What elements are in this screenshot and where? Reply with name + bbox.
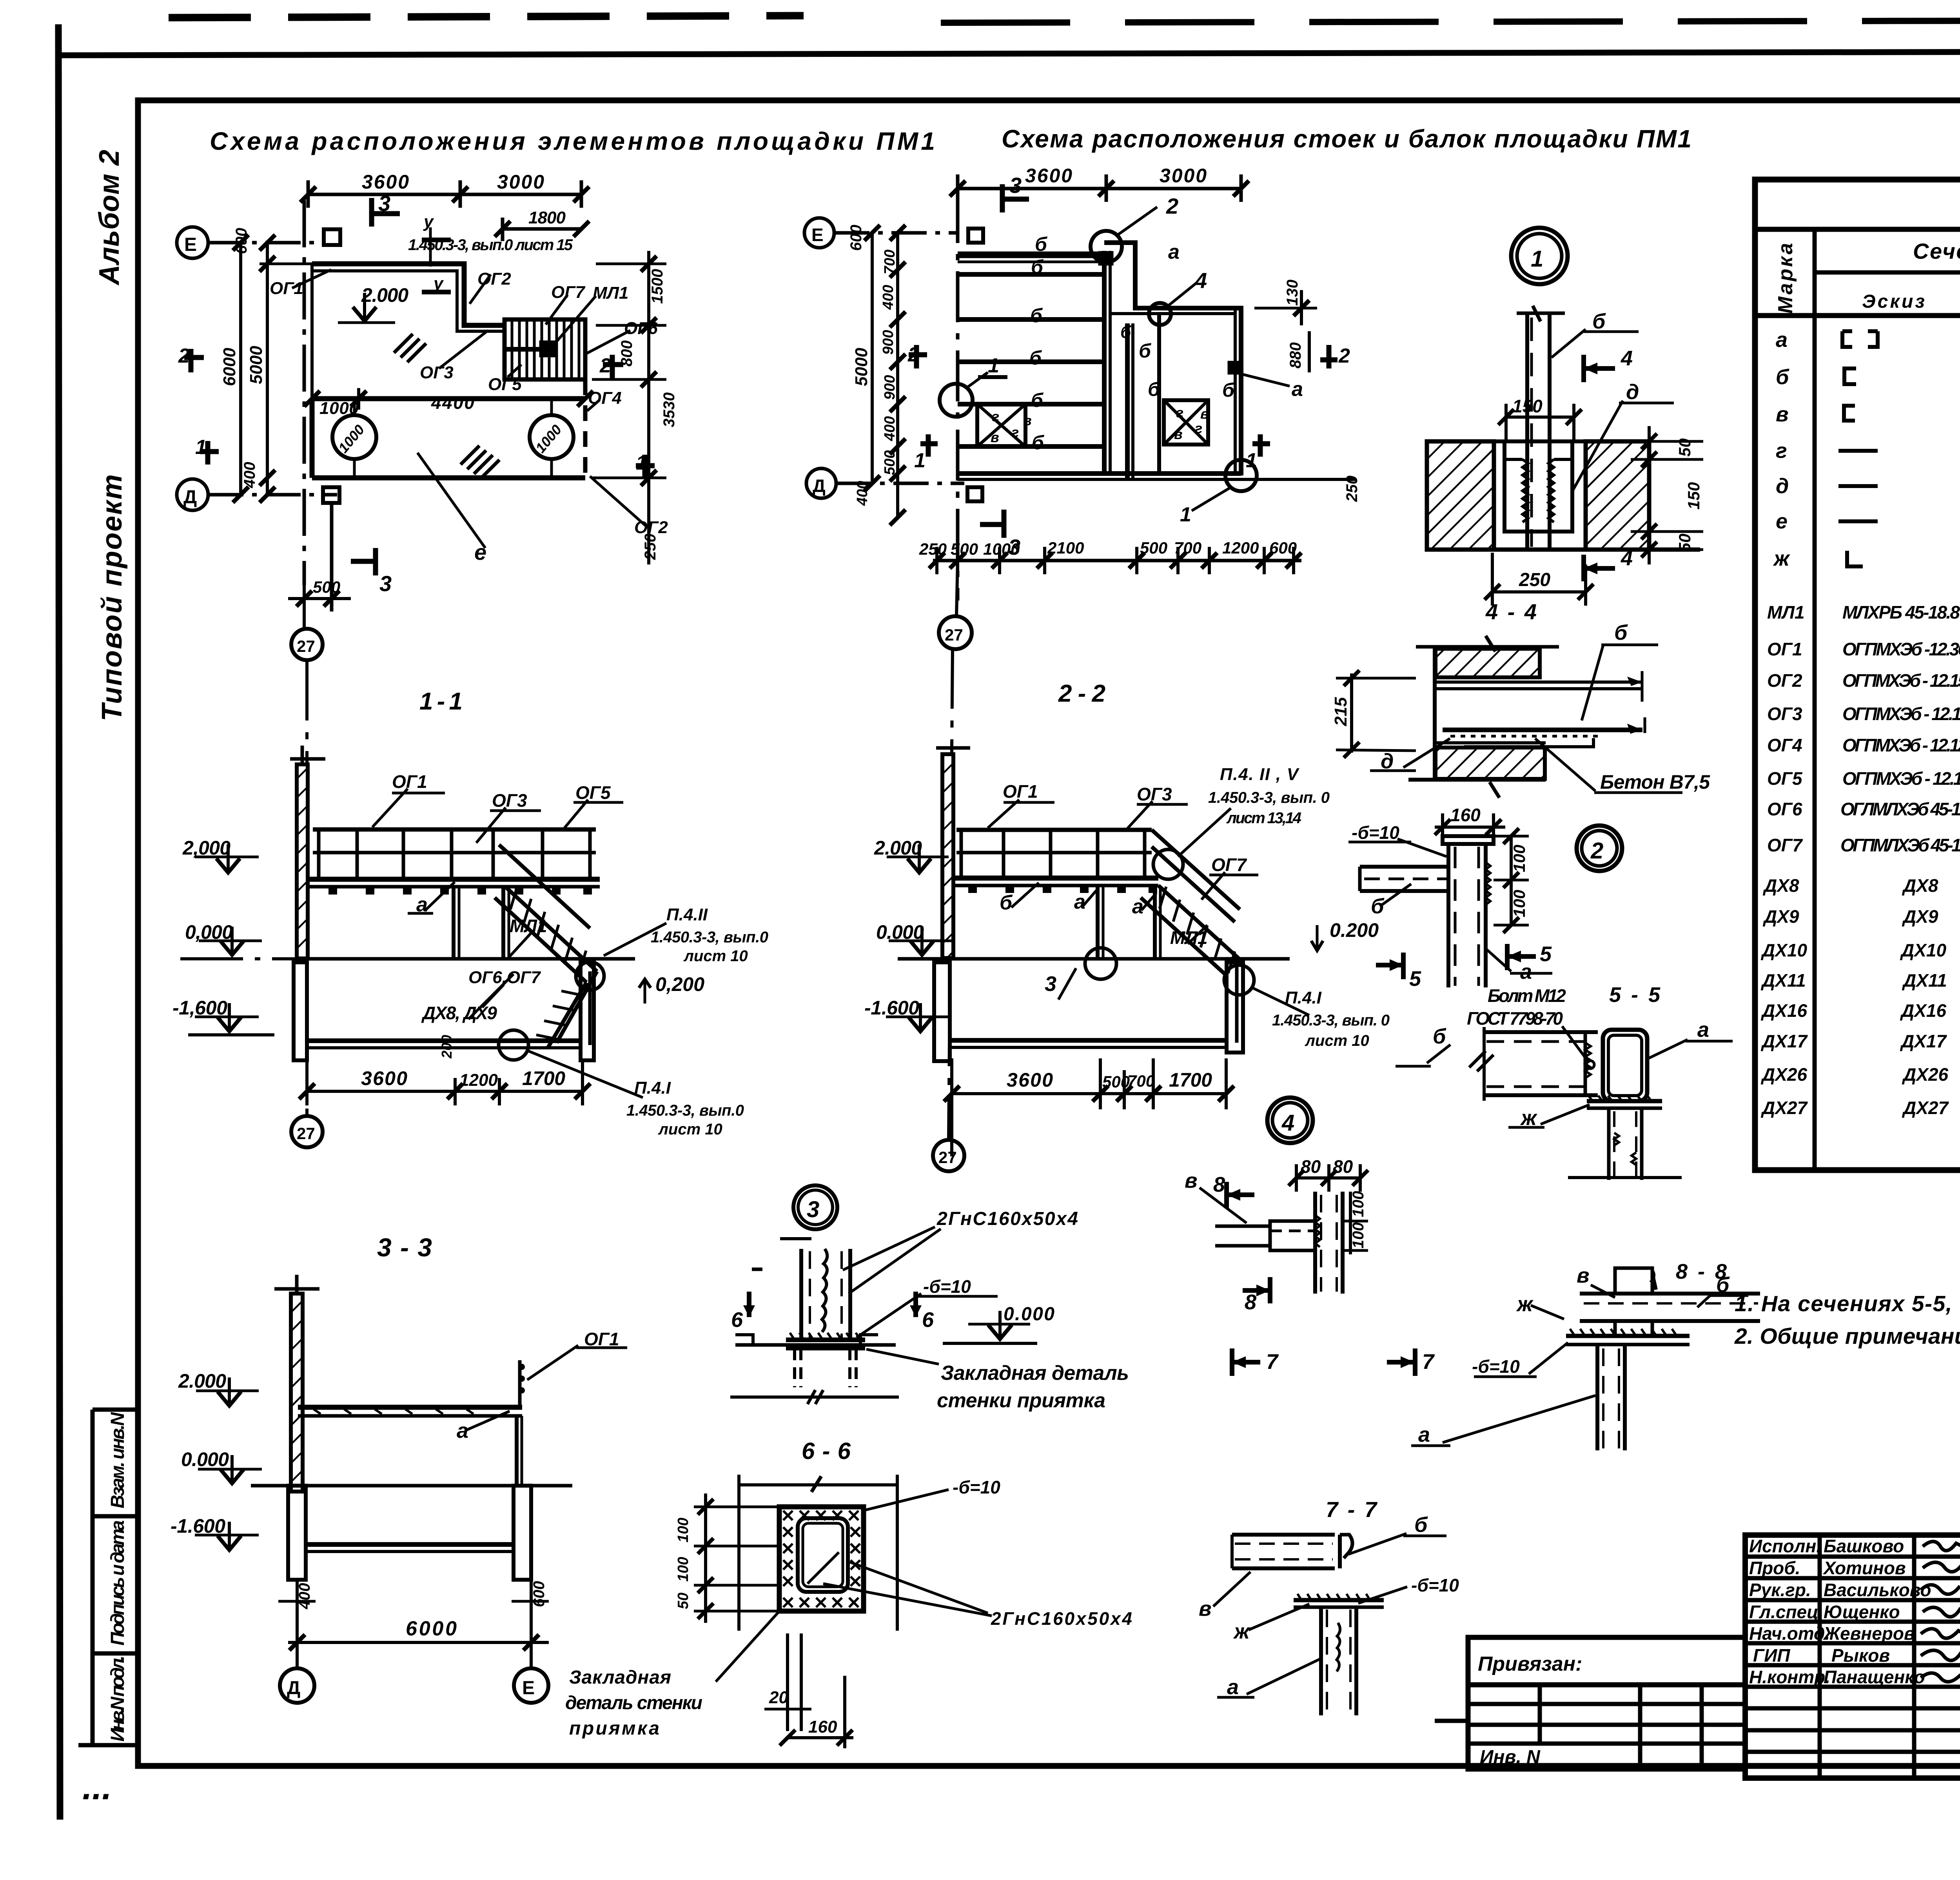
svg-text:д: д <box>1776 474 1789 498</box>
svg-text:Васильково: Васильково <box>1824 1580 1931 1600</box>
svg-text:2.000: 2.000 <box>178 1370 226 1392</box>
svg-text:0.000: 0.000 <box>876 921 924 943</box>
svg-text:0,000: 0,000 <box>185 921 233 943</box>
svg-text:100: 100 <box>675 1557 691 1582</box>
svg-text:7: 7 <box>1422 1350 1435 1374</box>
svg-text:250: 250 <box>1343 475 1361 502</box>
svg-text:ДХ8, ДХ9: ДХ8, ДХ9 <box>421 1003 497 1023</box>
svg-text:Бетон В7,5: Бетон В7,5 <box>1600 771 1710 793</box>
svg-text:ОГПМЛХЭб 45-12.18: ОГПМЛХЭб 45-12.18 <box>1840 835 1960 855</box>
svg-text:ОГ1: ОГ1 <box>270 279 303 298</box>
svg-text:ж: ж <box>1520 1106 1538 1130</box>
svg-text:50: 50 <box>1675 438 1694 457</box>
svg-text:ОГ7: ОГ7 <box>1211 855 1247 875</box>
svg-text:Нач.отд.: Нач.отд. <box>1749 1623 1830 1644</box>
svg-text:400: 400 <box>241 462 258 488</box>
svg-text:1200: 1200 <box>459 1071 498 1090</box>
svg-text:50: 50 <box>1675 534 1694 552</box>
svg-text:215: 215 <box>1331 697 1350 726</box>
svg-text:ОГ1: ОГ1 <box>392 771 427 792</box>
svg-text:6000: 6000 <box>406 1617 457 1640</box>
svg-text:Инв.N подл.: Инв.N подл. <box>107 1655 128 1742</box>
svg-text:е: е <box>1776 510 1788 533</box>
svg-text:3: 3 <box>1009 173 1022 198</box>
svg-text:ГОСТ 7798-70: ГОСТ 7798-70 <box>1467 1008 1563 1029</box>
svg-text:3000: 3000 <box>1160 165 1207 187</box>
svg-text:2,000: 2,000 <box>182 837 230 859</box>
svg-text:ОГ1: ОГ1 <box>1767 639 1802 659</box>
svg-text:в: в <box>991 429 999 445</box>
svg-text:Взам. инв.N: Взам. инв.N <box>107 1412 128 1508</box>
svg-text:-б=10: -б=10 <box>1352 822 1399 843</box>
svg-text:100: 100 <box>675 1518 691 1542</box>
svg-text:ж: ж <box>1516 1292 1534 1316</box>
svg-text:250: 250 <box>642 534 659 560</box>
svg-text:Жевнеров: Жевнеров <box>1823 1623 1915 1644</box>
svg-text:ж: ж <box>1233 1620 1251 1643</box>
svg-text:8: 8 <box>1245 1290 1256 1314</box>
svg-text:в: в <box>1185 1169 1198 1192</box>
svg-text:0.000: 0.000 <box>1004 1304 1054 1325</box>
svg-text:3600: 3600 <box>1025 165 1072 187</box>
svg-text:ОГ1: ОГ1 <box>584 1329 619 1349</box>
svg-text:Закладная деталь: Закладная деталь <box>941 1362 1129 1385</box>
svg-text:б: б <box>1031 389 1044 411</box>
svg-text:1500: 1500 <box>649 269 666 304</box>
svg-text:Эскиз: Эскиз <box>1862 291 1925 312</box>
svg-text:3: 3 <box>378 191 390 216</box>
svg-text:-б=10: -б=10 <box>1411 1575 1459 1595</box>
svg-text:1: 1 <box>988 354 999 377</box>
svg-text:Привязан:: Привязан: <box>1478 1653 1582 1675</box>
svg-text:8: 8 <box>1213 1173 1225 1196</box>
svg-text:ДХ10: ДХ10 <box>1900 940 1946 960</box>
svg-text:б: б <box>1148 378 1161 400</box>
svg-text:600: 600 <box>530 1581 548 1607</box>
svg-text:-б=10: -б=10 <box>923 1276 971 1297</box>
svg-text:Д: Д <box>813 475 826 496</box>
svg-text:б: б <box>1032 432 1045 454</box>
svg-text:в: в <box>1174 426 1183 442</box>
svg-text:П.4.I: П.4.I <box>634 1078 671 1098</box>
svg-text:б: б <box>1592 310 1606 333</box>
svg-text:б: б <box>1120 323 1132 342</box>
svg-text:3-3: 3-3 <box>377 1233 432 1262</box>
svg-text:ОГ3: ОГ3 <box>1767 704 1802 724</box>
svg-text:5000: 5000 <box>247 346 266 384</box>
svg-text:1.450.3-3, вып. 0: 1.450.3-3, вып. 0 <box>1272 1012 1390 1029</box>
svg-text:1: 1 <box>1246 449 1257 472</box>
svg-text:ОГПМХЭб - 12.18: ОГПМХЭб - 12.18 <box>1842 768 1960 789</box>
svg-text:600: 600 <box>1269 539 1297 557</box>
svg-text:Проб.: Проб. <box>1749 1558 1800 1578</box>
svg-text:а: а <box>1776 328 1788 352</box>
svg-text:МЛ1: МЛ1 <box>593 283 628 303</box>
svg-text:2.000: 2.000 <box>361 284 408 306</box>
svg-text:500: 500 <box>313 578 340 596</box>
svg-text:Исполн.: Исполн. <box>1749 1536 1821 1556</box>
svg-text:700: 700 <box>1174 539 1201 557</box>
svg-text:1800: 1800 <box>528 208 566 227</box>
svg-text:ОГ3: ОГ3 <box>1137 784 1172 804</box>
svg-text:г: г <box>1011 424 1019 440</box>
svg-text:ОГ4: ОГ4 <box>1767 735 1802 755</box>
svg-text:1000: 1000 <box>319 399 359 418</box>
svg-text:Типовой проект: Типовой проект <box>96 474 128 721</box>
svg-text:Альбом 2: Альбом 2 <box>94 150 125 286</box>
svg-text:500: 500 <box>951 540 978 558</box>
svg-text:ОГ2: ОГ2 <box>1767 670 1802 691</box>
svg-text:1: 1 <box>195 436 207 459</box>
svg-text:П.4.II: П.4.II <box>666 905 708 924</box>
svg-text:1000: 1000 <box>335 421 368 456</box>
svg-text:Рыков: Рыков <box>1831 1645 1890 1666</box>
svg-text:1 - 1: 1 - 1 <box>419 688 463 715</box>
svg-text:ДХ9: ДХ9 <box>1762 906 1799 927</box>
svg-text:г: г <box>992 408 999 425</box>
svg-text:у: у <box>423 212 434 231</box>
svg-text:2. Общие примечания ст. на лис: 2. Общие примечания ст. на листе 14. <box>1734 1324 1960 1349</box>
svg-text:2: 2 <box>1166 194 1178 218</box>
svg-text:20: 20 <box>769 1688 788 1707</box>
svg-text:250: 250 <box>919 540 947 558</box>
svg-text:Е: Е <box>811 225 824 245</box>
svg-text:1.450.3-3, вып.0: 1.450.3-3, вып.0 <box>626 1102 744 1119</box>
svg-text:1.450.3-3, вып. 0: 1.450.3-3, вып. 0 <box>1208 789 1330 806</box>
svg-text:250: 250 <box>1519 570 1550 590</box>
svg-text:ДХ8: ДХ8 <box>1762 875 1799 896</box>
svg-text:700: 700 <box>1127 1072 1155 1090</box>
svg-text:3600: 3600 <box>361 1067 407 1089</box>
svg-text:Хотинов: Хотинов <box>1822 1558 1906 1578</box>
svg-text:а: а <box>1168 241 1180 263</box>
svg-text:Подпись и дата: Подпись и дата <box>107 1520 128 1646</box>
svg-text:ОГ5: ОГ5 <box>488 375 522 394</box>
svg-text:ГИП: ГИП <box>1753 1645 1790 1666</box>
svg-text:МЛ1: МЛ1 <box>1170 927 1208 948</box>
svg-text:2: 2 <box>1338 345 1350 367</box>
svg-text:500: 500 <box>1140 539 1167 557</box>
svg-text:2: 2 <box>907 343 919 366</box>
svg-text:П.4. II , V: П.4. II , V <box>1220 765 1300 784</box>
svg-text:ОГ5: ОГ5 <box>1767 768 1803 789</box>
svg-text:е: е <box>474 540 486 564</box>
svg-text:ОГПМХЭб - 12.15: ОГПМХЭб - 12.15 <box>1842 670 1960 691</box>
svg-text:3: 3 <box>379 571 392 596</box>
svg-text:6000: 6000 <box>220 348 239 386</box>
svg-text:ОГ5: ОГ5 <box>575 782 611 803</box>
svg-text:лист 10: лист 10 <box>658 1121 722 1138</box>
svg-text:0.000: 0.000 <box>181 1448 229 1470</box>
svg-text:ДХ8: ДХ8 <box>1902 875 1938 896</box>
svg-text:27: 27 <box>297 1124 315 1143</box>
svg-text:ОГ7: ОГ7 <box>551 283 586 302</box>
svg-text:0,200: 0,200 <box>655 973 704 995</box>
svg-text:ДХ26: ДХ26 <box>1902 1064 1948 1085</box>
svg-text:ОГ3: ОГ3 <box>420 363 454 382</box>
svg-text:400: 400 <box>296 1583 313 1610</box>
svg-text:ДХ9: ДХ9 <box>1902 906 1938 927</box>
svg-text:1.450.3-3, вып.0 лист 15: 1.450.3-3, вып.0 лист 15 <box>408 236 573 254</box>
svg-text:ДХ10: ДХ10 <box>1760 940 1807 960</box>
svg-text:а: а <box>1227 1675 1239 1699</box>
svg-text:а: а <box>416 893 428 916</box>
svg-text:900: 900 <box>880 330 897 355</box>
svg-text:ДХ17: ДХ17 <box>1760 1031 1808 1051</box>
svg-text:3600: 3600 <box>362 171 409 193</box>
svg-text:МЛ1: МЛ1 <box>1767 602 1805 622</box>
svg-text:27: 27 <box>297 637 315 655</box>
svg-text:б: б <box>1030 305 1043 327</box>
svg-text:ОГ2: ОГ2 <box>477 269 511 289</box>
svg-text:80: 80 <box>1333 1156 1353 1177</box>
svg-text:а: а <box>1418 1423 1430 1446</box>
svg-text:д: д <box>1626 380 1639 404</box>
svg-text:Гл.спец.: Гл.спец. <box>1749 1602 1824 1622</box>
svg-text:ДХ27: ДХ27 <box>1760 1098 1808 1118</box>
svg-text:1.450.3-3, вып.0: 1.450.3-3, вып.0 <box>651 929 768 946</box>
svg-text:0.200: 0.200 <box>1330 919 1379 941</box>
svg-text:ОГ4: ОГ4 <box>588 388 622 408</box>
svg-text:27: 27 <box>945 626 963 644</box>
svg-text:600: 600 <box>233 228 250 254</box>
svg-text:500: 500 <box>1102 1072 1130 1091</box>
svg-text:4400: 4400 <box>431 392 474 413</box>
svg-text:ОГ1: ОГ1 <box>1003 781 1038 802</box>
svg-text:Д: Д <box>287 1678 300 1699</box>
svg-text:ОГПМХЭб - 12.12: ОГПМХЭб - 12.12 <box>1842 735 1960 755</box>
svg-text:а: а <box>457 1419 468 1443</box>
svg-text:а: а <box>1697 1018 1709 1042</box>
svg-text:50: 50 <box>675 1593 691 1609</box>
svg-text:г: г <box>1195 420 1202 436</box>
svg-text:-б=10: -б=10 <box>1472 1356 1520 1377</box>
svg-text:880: 880 <box>1287 342 1304 368</box>
svg-text:2.000: 2.000 <box>874 837 922 859</box>
svg-text:ДХ11: ДХ11 <box>1902 970 1947 991</box>
svg-text:80: 80 <box>1301 1156 1321 1177</box>
svg-text:100: 100 <box>1510 845 1528 872</box>
svg-text:5000: 5000 <box>852 348 871 386</box>
svg-text:ОГПМХЭб -12.36: ОГПМХЭб -12.36 <box>1842 639 1960 659</box>
svg-text:ОГ6,ОГ7: ОГ6,ОГ7 <box>468 968 541 987</box>
svg-text:4: 4 <box>1621 347 1633 370</box>
svg-text:ОГПМХЭб - 12.12*: ОГПМХЭб - 12.12* <box>1842 704 1960 724</box>
svg-text:4-4: 4-4 <box>1485 599 1537 624</box>
svg-text:лист 13,14: лист 13,14 <box>1226 809 1301 827</box>
svg-text:МЛХРБ 45-18.8: МЛХРБ 45-18.8 <box>1842 602 1960 622</box>
svg-text:500: 500 <box>882 450 898 475</box>
svg-text:6: 6 <box>922 1308 934 1332</box>
svg-text:МЛ1: МЛ1 <box>510 916 547 936</box>
svg-text:б: б <box>1433 1025 1446 1048</box>
svg-text:4: 4 <box>1621 546 1633 570</box>
svg-text:а: а <box>1292 378 1303 401</box>
svg-text:ДХ17: ДХ17 <box>1900 1031 1947 1051</box>
svg-text:ДХ16: ДХ16 <box>1760 1000 1807 1021</box>
svg-text:лист 10: лист 10 <box>1305 1032 1369 1049</box>
svg-text:б: б <box>1371 895 1385 918</box>
svg-text:б: б <box>1614 621 1628 644</box>
svg-text:д: д <box>1381 749 1394 773</box>
svg-text:Е: Е <box>522 1678 535 1699</box>
svg-text:ДХ26: ДХ26 <box>1760 1064 1807 1085</box>
svg-text:160: 160 <box>1450 805 1481 825</box>
svg-text:3: 3 <box>1045 972 1056 996</box>
svg-text:Схема расположения элементов п: Схема расположения элементов площадки ПМ… <box>210 127 935 155</box>
svg-text:ОГ7: ОГ7 <box>1767 835 1803 855</box>
svg-text:1: 1 <box>914 449 926 472</box>
svg-text:6: 6 <box>731 1308 743 1332</box>
svg-text:1. На сечениях 5-5, 7-7, 8-8 и: 1. На сечениях 5-5, 7-7, 8-8 и в узлах н… <box>1735 1291 1960 1316</box>
svg-text:1700: 1700 <box>1169 1069 1212 1091</box>
svg-text:у: у <box>433 274 444 293</box>
svg-text:б: б <box>1139 340 1152 362</box>
svg-text:ОГ6: ОГ6 <box>1767 799 1802 819</box>
svg-text:6-6: 6-6 <box>802 1438 851 1464</box>
svg-text:ДХ16: ДХ16 <box>1900 1000 1946 1021</box>
svg-text:150: 150 <box>1512 396 1543 416</box>
svg-text:ж: ж <box>1773 547 1791 570</box>
svg-text:Закладная: Закладная <box>569 1667 671 1688</box>
svg-text:100: 100 <box>1350 1191 1367 1217</box>
svg-text:Схема расположения стоек и бал: Схема расположения стоек и балок площадк… <box>1002 125 1691 153</box>
svg-text:900: 900 <box>882 375 898 400</box>
svg-text:б: б <box>1035 233 1048 255</box>
svg-text:Марка: Марка <box>1774 243 1797 314</box>
svg-text:4: 4 <box>1194 268 1207 293</box>
svg-text:1000: 1000 <box>983 540 1020 558</box>
svg-text:приямка: приямка <box>569 1718 659 1739</box>
svg-text:Болт М12: Болт М12 <box>1488 985 1566 1006</box>
svg-text:деталь стенки: деталь стенки <box>565 1693 702 1713</box>
svg-text:Башково: Башково <box>1824 1536 1904 1556</box>
svg-text:100: 100 <box>1510 890 1528 917</box>
svg-text:2100: 2100 <box>1047 539 1084 557</box>
svg-text:а: а <box>1074 891 1085 913</box>
svg-text:...: ... <box>82 1768 112 1807</box>
svg-text:в: в <box>1199 1597 1212 1621</box>
svg-text:а: а <box>1132 895 1143 918</box>
svg-text:ОГ6: ОГ6 <box>624 319 658 338</box>
svg-text:Е: Е <box>184 234 197 255</box>
svg-text:б: б <box>1029 347 1042 369</box>
svg-text:Инв. N: Инв. N <box>1480 1747 1541 1767</box>
svg-text:Н.контр.: Н.контр. <box>1749 1667 1830 1687</box>
svg-text:б: б <box>1716 1273 1730 1297</box>
svg-text:в: в <box>1023 412 1032 428</box>
svg-text:П.4.I: П.4.I <box>1285 988 1322 1007</box>
svg-text:7: 7 <box>1266 1350 1279 1374</box>
svg-text:3: 3 <box>807 1197 819 1222</box>
svg-text:Д: Д <box>183 487 197 508</box>
svg-text:а: а <box>1520 960 1532 984</box>
svg-text:г: г <box>1776 439 1787 463</box>
svg-text:г: г <box>1176 405 1183 421</box>
svg-text:1200: 1200 <box>1222 539 1259 557</box>
svg-text:в: в <box>1577 1264 1590 1287</box>
svg-text:б: б <box>1000 891 1013 914</box>
svg-text:Ющенко: Ющенко <box>1824 1602 1900 1622</box>
svg-text:5-5: 5-5 <box>1609 983 1661 1007</box>
svg-text:4: 4 <box>1281 1110 1294 1136</box>
svg-text:700: 700 <box>882 250 898 274</box>
svg-text:в: в <box>1200 406 1209 422</box>
svg-text:3000: 3000 <box>497 171 544 193</box>
svg-text:-1.600: -1.600 <box>864 997 919 1019</box>
svg-text:Панащенко: Панащенко <box>1824 1667 1925 1687</box>
svg-text:Сечения: Сечения <box>1913 239 1960 263</box>
svg-text:б: б <box>1222 379 1235 401</box>
svg-text:-1.600: -1.600 <box>171 1515 225 1537</box>
svg-text:2: 2 <box>1590 838 1603 864</box>
svg-text:27: 27 <box>938 1148 957 1167</box>
svg-text:ОГЛМЛХЭб 45-12.18: ОГЛМЛХЭб 45-12.18 <box>1840 799 1960 819</box>
svg-text:2ГнС160х50х4: 2ГнС160х50х4 <box>991 1608 1132 1629</box>
svg-text:ОГ3: ОГ3 <box>492 790 527 811</box>
svg-text:б: б <box>1776 365 1789 389</box>
svg-text:5: 5 <box>1409 967 1421 991</box>
svg-text:600: 600 <box>848 225 865 251</box>
svg-text:400: 400 <box>854 481 871 506</box>
svg-text:Рук.гр.: Рук.гр. <box>1749 1580 1811 1600</box>
svg-text:150: 150 <box>1684 482 1703 510</box>
svg-text:-1,600: -1,600 <box>172 997 227 1019</box>
svg-text:400: 400 <box>882 416 898 441</box>
svg-text:2-2: 2-2 <box>1058 680 1105 707</box>
svg-text:1: 1 <box>1531 246 1543 272</box>
svg-text:3600: 3600 <box>1007 1069 1053 1091</box>
svg-text:130: 130 <box>1284 279 1301 306</box>
svg-text:200: 200 <box>439 1035 455 1059</box>
svg-text:лист 10: лист 10 <box>683 947 748 965</box>
svg-text:б: б <box>1414 1513 1428 1537</box>
svg-text:1000: 1000 <box>532 421 565 456</box>
svg-text:в: в <box>1776 403 1789 426</box>
svg-text:7-7: 7-7 <box>1326 1497 1378 1522</box>
svg-text:3530: 3530 <box>661 392 678 427</box>
svg-text:1700: 1700 <box>522 1067 565 1089</box>
svg-text:5: 5 <box>1540 942 1552 966</box>
svg-text:160: 160 <box>808 1717 837 1737</box>
svg-text:2ГнС160х50х4: 2ГнС160х50х4 <box>936 1209 1078 1229</box>
svg-text:ДХ27: ДХ27 <box>1902 1098 1949 1118</box>
svg-text:б: б <box>1031 256 1044 278</box>
svg-text:-б=10: -б=10 <box>953 1477 1000 1497</box>
svg-text:100: 100 <box>1350 1222 1367 1248</box>
svg-text:400: 400 <box>880 285 897 310</box>
svg-text:стенки приятка: стенки приятка <box>937 1389 1105 1412</box>
svg-text:ДХ11: ДХ11 <box>1760 970 1806 991</box>
svg-text:1: 1 <box>1180 503 1191 526</box>
